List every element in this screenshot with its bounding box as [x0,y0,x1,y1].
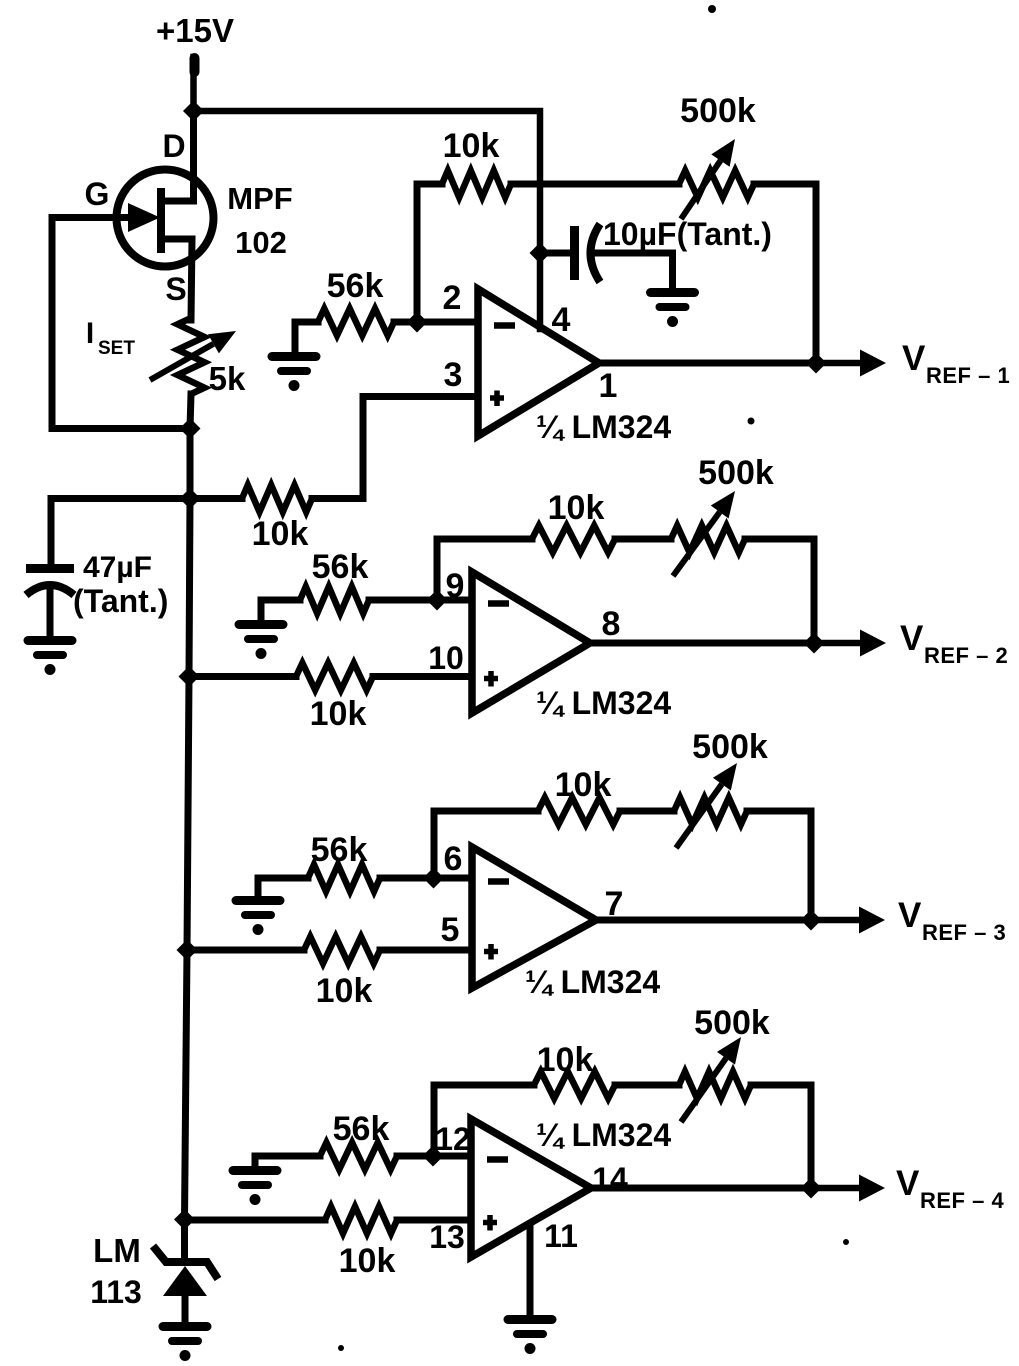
svg-text:MPF: MPF [227,181,292,216]
svg-text:500k: 500k [694,1004,770,1042]
op-amp U1C (1/4 LM324) minus sign [488,878,509,885]
svg-text:9: 9 [446,567,465,605]
node: stage2 output junction [804,633,825,654]
svg-text:10k: 10k [339,1242,396,1280]
node: +15V rail junction [183,101,204,122]
svg-text:5k: 5k [209,360,246,397]
node: pin4 / 10uF junction [530,243,551,264]
resistor R16 56k (stage4) [320,1143,397,1170]
wire: stage1 feedback right leg to output [754,184,816,363]
wire: top rail from +15V junction to U1 pin-4 drop [194,111,541,329]
node: stage3 output junction [801,910,822,931]
node: source/5k-bottom junction [180,418,201,439]
diode D1 LM113 cathode bar with zener hooks [153,1246,218,1279]
transistor Q1 source lead [161,239,192,320]
ground at stage2 56k [239,620,283,629]
capacitor C2 47uF top plate [26,564,74,573]
svg-text:10k: 10k [537,1041,594,1079]
transistor Q1 gate arrow [52,214,135,221]
node: stage2 inverting input [427,590,448,611]
node: stage1 output junction [806,353,827,374]
svg-text:I: I [86,317,94,350]
output arrow V_REF-4 [591,1185,865,1192]
op-amp U1A (1/4 LM324) plus sign [490,395,504,401]
svg-text:10k: 10k [310,695,367,733]
wire: 10uF to ground drop [594,253,673,290]
svg-text:¼ LM324: ¼ LM324 [536,409,671,445]
resistor R5 10k (stage1 noninv) [242,485,312,512]
svg-text:12: 12 [435,1121,471,1157]
svg-text:8: 8 [602,605,621,643]
transistor Q1 MPF102 body circle [117,170,214,267]
svg-text:113: 113 [90,1274,142,1310]
wire: stage1 56k to ground corner [295,322,318,354]
wire: stage4 feedback left leg [434,1085,534,1156]
potentiometer R1 wiper arrow [150,344,213,380]
wire: stage3 noninv 10k to input [380,947,472,954]
wire: stage1 feedback top run [417,181,442,188]
resistor R4 56k (stage1) [318,309,394,336]
potentiometer R7 500k (stage2) [671,526,745,553]
node: stage4 output junction [801,1178,822,1199]
svg-text:500k: 500k [692,728,768,766]
svg-text:V: V [898,896,922,935]
svg-text:10µF(Tant.): 10µF(Tant.) [603,216,772,252]
svg-text:(Tant.): (Tant.) [73,583,168,619]
wire: stage1 output run [599,360,816,367]
capacitor C1 10uF left plate [570,226,579,280]
svg-text:REF – 3: REF – 3 [922,920,1006,945]
wire: rail to stage1 noninv 10k [190,495,242,502]
op-amp U1D (1/4 LM324) minus sign [487,1156,508,1163]
svg-text:56k: 56k [327,267,384,305]
ground at stage1 56k [272,352,316,361]
svg-text:+15V: +15V [156,12,234,49]
resistor R14 10k (stage4 feedback) [534,1072,615,1099]
svg-text:10k: 10k [252,515,309,553]
svg-text:10k: 10k [316,972,373,1010]
node: rail junction at 47uF / R-noninv-1 [180,488,201,509]
svg-text:V: V [900,619,924,658]
speck [843,1239,849,1245]
wire: rail to stage4 noninv [185,1217,326,1224]
op-amp U1C (1/4 LM324) triangle [472,847,596,988]
op-amp U1C (1/4 LM324) plus sign [484,949,498,955]
ground at stage4 pin 11 [508,1315,552,1324]
wire: main rail 5k bottom to LM113 [185,394,192,1256]
svg-text:REF – 4: REF – 4 [920,1188,1004,1213]
transistor Q1 channel bar [157,188,165,253]
wire: stage3 feedback right leg [747,811,811,920]
wire: stage4 feedback right leg [751,1085,811,1188]
wire: stage3 output run [596,917,811,924]
svg-text:4: 4 [552,301,571,339]
op-amp U1B (1/4 LM324) plus sign [484,676,498,682]
speck [708,5,716,13]
op-amp U1D (1/4 LM324) plus sign [483,1220,497,1226]
op-amp U1A (1/4 LM324) minus sign [494,322,515,329]
ground below LM113 [163,1322,207,1331]
wire: gate loop from G down to 5k bottom junction [52,218,190,429]
wire: stage4 pin11 to ground [527,1224,534,1318]
wire: stage3 56k to ground corner [258,878,308,898]
node: stage4 inverting input [423,1146,444,1167]
svg-text:¼ LM324: ¼ LM324 [536,1117,671,1153]
node: rail junction stage-2 noninv [179,666,200,687]
transistor Q1 drain lead [161,108,194,201]
svg-text:1: 1 [599,367,618,405]
wire: +15V stub down to top rail [190,57,197,114]
ground at stage4 56k [233,1166,277,1175]
svg-text:10k: 10k [548,489,605,527]
capacitor C2 47uF curved plate [26,585,74,595]
svg-text:47µF: 47µF [83,551,152,584]
wire: stage2 10k to 500k [615,536,671,543]
svg-text:5: 5 [441,911,460,949]
wire: stage2 feedback right leg [745,539,814,643]
svg-text:¼ LM324: ¼ LM324 [525,964,660,1000]
wire: stage2 feedback left leg [437,539,532,600]
svg-text:D: D [162,128,185,164]
speck [338,1345,344,1351]
wire: stage2 56k to inverting input [369,597,472,604]
ground at stage3 56k [236,896,280,905]
svg-text:G: G [85,176,110,212]
wire: stage1 10k to 500k [511,181,679,188]
svg-text:REF – 1: REF – 1 [926,363,1010,388]
svg-text:500k: 500k [698,454,774,492]
svg-text:V: V [902,339,926,378]
wire: rail to stage3 noninv [187,947,304,954]
wire: stage4 output run [591,1185,811,1192]
svg-text:13: 13 [429,1219,465,1255]
speck [748,418,755,425]
resistor R8 56k (stage2) [300,587,369,614]
svg-text:500k: 500k [680,92,756,130]
wire: stage2 56k to ground corner [261,600,300,622]
svg-text:REF – 2: REF – 2 [924,643,1008,668]
svg-text:102: 102 [235,225,287,260]
wire: LM113 anode to ground [182,1296,189,1324]
wire: rail to 47uF capacitor [51,499,190,563]
output arrow V_REF-1 [599,360,866,367]
wire: stage4 56k to ground corner [255,1156,320,1168]
diode D1 LM113 anode triangle [163,1266,207,1296]
wire end blob at +15V stub [190,58,200,72]
wire: stage4 56k to inverting input [397,1153,471,1160]
node: stage3 inverting input [423,868,444,889]
resistor R12 56k (stage3) [308,865,380,892]
op-amp U1D (1/4 LM324) triangle [471,1119,591,1257]
wire: 47uF to ground [47,588,54,638]
op-amp U1B (1/4 LM324) minus sign [488,600,509,607]
potentiometer R11 wiper arrow [676,784,722,848]
potentiometer R3 500k (stage1) [679,171,754,198]
wire: stage2 output run [590,640,814,647]
wire: junction to 10uF cap [540,250,570,257]
node: rail junction stage-4 noninv / LM113 [174,1209,195,1230]
wire: stage4 noninv 10k to input [397,1217,471,1224]
svg-text:11: 11 [544,1218,578,1254]
svg-text:10k: 10k [555,766,612,804]
resistor R9 10k (stage2 noninv) [296,663,373,690]
svg-text:LM: LM [93,1232,141,1269]
wire: stage3 10k to 500k [620,808,674,815]
op-amp U1B (1/4 LM324) triangle [472,572,590,713]
wire: stage1 non-inverting input run [312,397,478,499]
svg-text:3: 3 [444,356,463,394]
svg-text:56k: 56k [312,548,369,586]
node: rail junction stage-3 noninv [177,940,198,961]
capacitor C1 10uF curved plate [591,224,601,282]
resistor R10 10k (stage3 feedback) [538,798,620,825]
svg-text:V: V [896,1164,920,1203]
potentiometer R1 5k (I_SET) [178,318,205,394]
svg-text:6: 6 [444,840,463,878]
svg-text:10k: 10k [443,127,500,165]
resistor R17 10k (stage4 noninv) [325,1207,397,1234]
resistor R6 10k (stage2 feedback) [532,526,615,553]
ground below 47uF [28,636,72,645]
potentiometer R3 wiper arrow [681,161,721,219]
potentiometer R15 wiper arrow [681,1058,726,1122]
wire: stage1 56k to inverting input [394,319,478,326]
svg-text:56k: 56k [311,831,368,869]
svg-text:56k: 56k [333,1110,390,1148]
potentiometer R15 500k (stage4) [679,1072,751,1099]
svg-text:10: 10 [428,640,464,676]
svg-text:14: 14 [592,1161,628,1197]
node: stage1 inverting input [407,312,428,333]
svg-text:S: S [165,271,186,307]
wire: stage4 10k to 500k [615,1082,679,1089]
wire: stage1 feedback left leg [414,184,421,322]
svg-text:SET: SET [98,338,135,359]
wire: stage2 noninv 10k to input [373,673,472,680]
wire: stage3 56k to inverting input [380,875,472,882]
potentiometer R7 wiper arrow [673,512,720,576]
resistor R2 10k (stage1 feedback) [442,171,511,198]
svg-text:2: 2 [443,279,462,317]
output arrow V_REF-2 [590,640,866,647]
wire: rail to stage2 noninv [189,673,296,680]
op-amp U1A (1/4 LM324) triangle [478,289,599,436]
resistor R13 10k (stage3 noninv) [304,937,380,964]
potentiometer R11 500k (stage3) [674,798,747,825]
svg-text:¼ LM324: ¼ LM324 [536,685,671,721]
wire: stage3 feedback left leg [434,811,538,878]
ground below 10uF [651,288,695,297]
output arrow V_REF-3 [596,917,865,924]
